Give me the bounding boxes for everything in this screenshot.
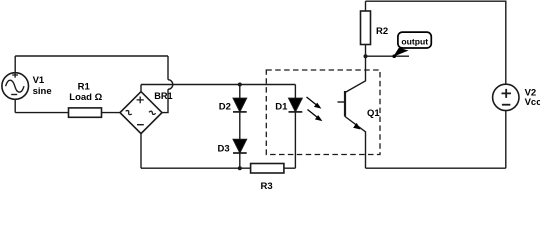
light arrow 2 [308,110,323,122]
svg-text:Load Ω: Load Ω [69,92,102,103]
junction dot D2 top [238,83,242,87]
wire right vertical lower to bridge right vertex [162,89,168,112]
phototransistor Q1 [338,56,366,168]
wire bottom-left rail to bridge [15,112,120,114]
wire V2 bottom lead [505,111,507,169]
svg-text:V1: V1 [33,75,45,86]
light arrow 1 [307,97,322,109]
wire bottom rail LED side [141,167,295,169]
wire top rail [366,1,506,84]
resistor R3 [251,164,284,174]
wire top-left rail [15,55,168,57]
wire bridge bottom stub [140,134,142,169]
bridge rectifier BR1 [120,92,162,134]
svg-text:R1: R1 [78,82,91,93]
resistor R1 [69,108,102,117]
svg-text:D2: D2 [219,101,231,112]
voltage source V2 [493,84,519,110]
wire output stub [366,55,410,57]
wire plus rail to D1 [141,84,295,86]
optocoupler dashed box [266,70,380,155]
svg-text:R3: R3 [261,181,273,189]
svg-text:sine: sine [33,86,52,97]
voltage source V1 [2,72,29,99]
wire V1 top lead [14,56,16,73]
resistor R2 [361,1,371,56]
diode D2 [233,98,247,112]
wire bottom rail right side [366,167,506,169]
wire right vertical upper [167,56,169,80]
svg-text:output: output [401,37,428,47]
wire bridge top stub [140,85,142,92]
junction dot output node [364,54,368,58]
junction dot D3 bottom [238,166,242,170]
svg-text:Vcc: Vcc [525,97,540,108]
wire D2 D3 branch [239,85,241,169]
svg-text:D3: D3 [218,143,230,154]
wire V1 bottom lead [14,99,16,112]
label output callout [392,32,431,58]
LED D1 [289,98,303,112]
svg-text:Q1: Q1 [367,108,380,119]
svg-text:D1: D1 [275,101,288,112]
wire hop over plus rail [168,80,173,90]
svg-text:BR1: BR1 [154,91,172,101]
wire D1 branch [294,85,296,169]
diode D3 [233,139,247,153]
svg-text:R2: R2 [376,26,388,37]
